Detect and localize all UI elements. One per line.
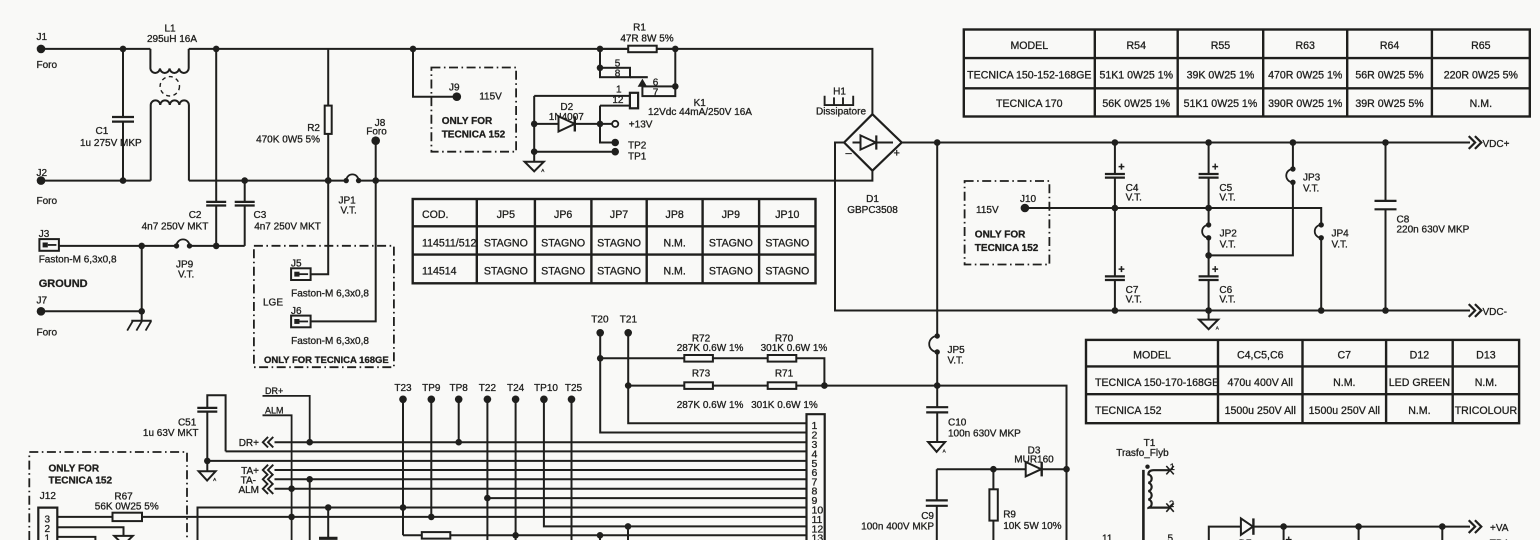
- svg-text:470K 0W5 5%: 470K 0W5 5%: [256, 135, 320, 146]
- test point TP8: [450, 383, 469, 445]
- svg-text:51K1 0W25 1%: 51K1 0W25 1%: [1184, 98, 1258, 110]
- bridge rectifier D1 GBPC3508: [844, 114, 902, 216]
- svg-text:C3: C3: [254, 210, 267, 221]
- test point T20: [591, 314, 806, 432]
- svg-text:STAGNO: STAGNO: [484, 237, 528, 249]
- svg-text:1: 1: [1170, 462, 1175, 473]
- wire J12 pin1 (cut): [57, 537, 95, 540]
- svg-text:470R 0W25 1%: 470R 0W25 1%: [1268, 70, 1343, 82]
- svg-text:+: +: [1286, 535, 1292, 540]
- svg-text:T25: T25: [565, 383, 583, 394]
- svg-text:JP7: JP7: [610, 209, 628, 221]
- svg-text:LGE: LGE: [263, 298, 283, 309]
- wire: VDC+ branch down through JP5: [936, 143, 938, 337]
- svg-text:TECNICA 150-170-168GE: TECNICA 150-170-168GE: [1095, 377, 1219, 389]
- resistor R71 301K 0.6W 1%: [751, 368, 937, 411]
- svg-text:4n7 250V MKT: 4n7 250V MKT: [142, 222, 209, 233]
- svg-text:STAGNO: STAGNO: [765, 266, 809, 278]
- connector J12: [38, 491, 57, 540]
- svg-text:10K 5W 10%: 10K 5W 10%: [1003, 521, 1061, 532]
- svg-text:ALM: ALM: [238, 485, 259, 496]
- wire: +VA rail junction stubs: [1280, 523, 1445, 540]
- svg-text:39K 0W25 1%: 39K 0W25 1%: [1187, 70, 1255, 82]
- transformer T1 Trasfo_Flyb: [1102, 438, 1175, 540]
- svg-text:1: 1: [45, 534, 51, 540]
- svg-text:47R 8W 5%: 47R 8W 5%: [620, 34, 673, 45]
- dashed box J9 ONLY FOR TECNICA 152: [431, 68, 516, 152]
- ground triangle under C6 on VDC- rail: [1199, 311, 1220, 331]
- svg-text:T23: T23: [394, 383, 412, 394]
- svg-text:1: 1: [616, 84, 622, 95]
- net arrow VDC+: [1470, 137, 1510, 150]
- node +13V open terminal: [612, 120, 653, 131]
- svg-text:470u 400V All: 470u 400V All: [1228, 377, 1293, 389]
- capacitor C2 4n7 250V MKT: [142, 46, 227, 250]
- ground triangle under C51: [199, 461, 218, 482]
- svg-text:220R 0W25 5%: 220R 0W25 5%: [1444, 70, 1519, 82]
- test point TP2: [600, 124, 647, 151]
- svg-text:STAGNO: STAGNO: [597, 237, 641, 249]
- svg-text:TP8: TP8: [450, 383, 469, 394]
- resistor R1 47R 8W 5%: [597, 23, 679, 53]
- svg-text:GROUND: GROUND: [39, 278, 88, 290]
- svg-text:390R 0W25 1%: 390R 0W25 1%: [1268, 98, 1343, 110]
- svg-text:287K 0.6W 1%: 287K 0.6W 1%: [677, 343, 744, 354]
- svg-text:C4,C5,C6: C4,C5,C6: [1237, 350, 1284, 362]
- relay K1 contact arm arrow: [639, 80, 647, 87]
- svg-text:1u 275V MKP: 1u 275V MKP: [80, 138, 142, 149]
- svg-text:R63: R63: [1295, 40, 1315, 52]
- capacitor C3 4n7 250V MKT: [235, 177, 321, 246]
- svg-text:+VA: +VA: [1490, 523, 1509, 534]
- connector J2 (Foro): [37, 168, 58, 207]
- svg-text:TP10: TP10: [534, 383, 558, 394]
- svg-text:56K 0W25 5%: 56K 0W25 5%: [95, 501, 159, 512]
- svg-text:ONLY FOR: ONLY FOR: [975, 230, 1026, 241]
- connector J1 (Foro): [37, 32, 58, 71]
- dashed box J10 ONLY FOR TECNICA 152: [965, 181, 1050, 265]
- connector J6 Faston-M 6,3x0,8: [291, 181, 376, 347]
- capacitor C4 V.T.: [1105, 139, 1142, 211]
- svg-text:STAGNO: STAGNO: [597, 266, 641, 278]
- svg-text:V.T.: V.T.: [948, 356, 964, 367]
- svg-text:JP10: JP10: [775, 209, 799, 221]
- svg-text:2: 2: [1169, 499, 1174, 510]
- svg-text:N.M.: N.M.: [663, 237, 685, 249]
- svg-text:220n 630V MKP: 220n 630V MKP: [1397, 225, 1470, 236]
- svg-text:V.T.: V.T.: [1220, 240, 1236, 251]
- relay K1 contact 5-8: [597, 49, 648, 80]
- ground stub below pin10 line: [319, 508, 338, 539]
- svg-text:115V: 115V: [479, 92, 502, 103]
- jumper JP4 V.T.: [1315, 222, 1349, 314]
- svg-text:R9: R9: [1003, 510, 1016, 521]
- dashed box ONLY FOR TECNICA 168GE: [254, 246, 394, 367]
- jumper JP2 V.T.: [1202, 208, 1237, 259]
- svg-text:DR+: DR+: [265, 386, 283, 396]
- svg-text:Foro: Foro: [37, 196, 58, 207]
- svg-text:56K 0W25 1%: 56K 0W25 1%: [1102, 98, 1170, 110]
- wire pin5 from C51 bottom: [207, 460, 806, 462]
- svg-text:+: +: [1212, 264, 1218, 276]
- test point TP10: [534, 383, 806, 526]
- svg-text:Foro: Foro: [37, 328, 58, 339]
- svg-text:TECNICA 170: TECNICA 170: [996, 98, 1063, 110]
- svg-text:1500u 250V All: 1500u 250V All: [1225, 405, 1296, 417]
- svg-text:JP4: JP4: [1332, 229, 1350, 240]
- wire pin9 from T22: [487, 497, 806, 499]
- svg-text:COD.: COD.: [422, 209, 448, 221]
- svg-text:STAGNO: STAGNO: [709, 237, 753, 249]
- svg-text:J7: J7: [37, 296, 48, 307]
- test point T25: [565, 383, 583, 540]
- svg-text:D1: D1: [866, 194, 879, 205]
- test point T22: [479, 383, 497, 540]
- capacitor C7 V.T.: [1105, 208, 1142, 314]
- resistor R73 287K 0.6W 1%: [628, 368, 768, 411]
- svg-text:295uH 16A: 295uH 16A: [147, 34, 197, 45]
- connector JP/flat-cable header pins 1-13: [807, 414, 825, 540]
- svg-text:V.T.: V.T.: [178, 270, 194, 281]
- svg-text:C10: C10: [948, 418, 967, 429]
- connector J10 terminal and wire to C4: [1021, 204, 1115, 213]
- table COD/JP5-JP10: [413, 199, 816, 283]
- test point T23: [394, 383, 412, 535]
- wire: ground line from J3 to C3: [59, 245, 245, 247]
- wire pin4 from C51 top: [226, 450, 807, 452]
- wire pin10 with off-page stub: [198, 504, 807, 540]
- diode D3 MUR160: [937, 445, 1070, 476]
- table MODEL/R54-R65: [964, 30, 1530, 117]
- diode D2 1N4007: [531, 96, 612, 132]
- test point T24: [507, 383, 525, 540]
- resistor R2 470K 0W5 5%: [256, 49, 332, 184]
- svg-text:LED GREEN: LED GREEN: [1389, 377, 1450, 389]
- net arrow DR+ / wire pin3: [239, 438, 807, 450]
- svg-text:R71: R71: [775, 368, 794, 379]
- svg-text:V.T.: V.T.: [341, 206, 357, 217]
- svg-text:J12: J12: [40, 491, 57, 502]
- svg-text:H1: H1: [833, 87, 846, 98]
- svg-text:V.T.: V.T.: [1126, 295, 1142, 306]
- net arrow VDC-: [1470, 305, 1507, 318]
- svg-text:JP2: JP2: [1220, 229, 1238, 240]
- svg-text:T22: T22: [479, 383, 497, 394]
- net arrow TA- / wire pin7: [241, 475, 807, 540]
- wire J12 pin2 to arrow ground (cut): [57, 527, 133, 540]
- svg-text:Foro: Foro: [366, 127, 387, 138]
- svg-text:MUR160: MUR160: [1014, 454, 1054, 465]
- svg-text:MODEL: MODEL: [1133, 350, 1171, 362]
- svg-text:TECNICA 152: TECNICA 152: [975, 243, 1039, 254]
- svg-text:R65: R65: [1471, 40, 1491, 52]
- connector J9 terminal and wire: [410, 46, 461, 101]
- svg-text:ALM: ALM: [265, 405, 284, 415]
- svg-text:+: +: [1118, 162, 1124, 174]
- svg-text:STAGNO: STAGNO: [709, 266, 753, 278]
- svg-text:Dissipatore: Dissipatore: [816, 107, 866, 118]
- svg-text:TP2: TP2: [628, 140, 647, 151]
- svg-text:115V: 115V: [976, 205, 999, 216]
- net arrow +VA: [1470, 521, 1509, 540]
- svg-text:N.M.: N.M.: [663, 266, 685, 278]
- svg-text:ONLY FOR TECNICA 168GE: ONLY FOR TECNICA 168GE: [264, 355, 389, 366]
- svg-text:100n 400V MKP: 100n 400V MKP: [861, 521, 934, 532]
- svg-text:DR+: DR+: [239, 438, 259, 449]
- net arrow TA+ / wire pin6: [241, 465, 806, 477]
- svg-text:JP9: JP9: [722, 209, 740, 221]
- svg-text:V.T.: V.T.: [1126, 192, 1142, 203]
- svg-text:D13: D13: [1476, 350, 1496, 362]
- svg-text:Faston-M 6,3x0,8: Faston-M 6,3x0,8: [291, 336, 369, 347]
- svg-text:TECNICA 152: TECNICA 152: [1095, 405, 1162, 417]
- table MODEL/C4C5C6-D13: [1086, 340, 1519, 423]
- svg-text:V.T.: V.T.: [1303, 184, 1319, 195]
- svg-text:TP1: TP1: [628, 152, 647, 163]
- svg-text:+13V: +13V: [629, 120, 653, 131]
- wire pin13 with series resistor (cut): [403, 532, 807, 540]
- svg-text:GBPC3508: GBPC3508: [847, 205, 898, 216]
- svg-text:301K 0.6W 1%: 301K 0.6W 1%: [751, 400, 818, 411]
- svg-text:L1: L1: [164, 24, 176, 35]
- svg-text:R55: R55: [1211, 40, 1231, 52]
- inductor L1 295uH 16A (common-mode choke): [147, 24, 197, 181]
- svg-text:VDC+: VDC+: [1483, 139, 1510, 150]
- jumper JP3 V.T.: [1286, 139, 1320, 194]
- capacitor C9 100n 400V MKP: [861, 469, 948, 540]
- connector J7 (Foro): [37, 296, 142, 339]
- net label DR+ with stub: [263, 386, 314, 446]
- svg-text:R54: R54: [1127, 40, 1147, 52]
- svg-text:J10: J10: [1020, 194, 1037, 205]
- chassis ground at J7: [127, 243, 152, 331]
- svg-text:J2: J2: [37, 168, 48, 179]
- svg-text:R64: R64: [1380, 40, 1400, 52]
- svg-text:STAGNO: STAGNO: [541, 237, 585, 249]
- wire: JP2 bottom to JP3 bottom: [1209, 182, 1293, 255]
- wire: AC line1 top rail from J1 to bridge: [41, 49, 872, 114]
- svg-text:TECNICA 150-152-168GE: TECNICA 150-152-168GE: [967, 70, 1091, 82]
- net arrow ALM / wire pin8: [238, 484, 806, 496]
- svg-text:12Vdc 44mA/250V 16A: 12Vdc 44mA/250V 16A: [648, 107, 752, 118]
- svg-text:R1: R1: [633, 23, 646, 34]
- svg-text:Trasfo_Flyb: Trasfo_Flyb: [1116, 448, 1169, 459]
- svg-text:T21: T21: [620, 314, 638, 325]
- svg-text:1u 63V MKT: 1u 63V MKT: [143, 428, 199, 439]
- capacitor C6 V.T.: [1199, 255, 1236, 313]
- jumper JP5 V.T.: [929, 333, 965, 389]
- svg-text:56R 0W25 5%: 56R 0W25 5%: [1355, 70, 1424, 82]
- svg-text:MODEL: MODEL: [1010, 40, 1048, 52]
- svg-text:C2: C2: [189, 210, 202, 221]
- svg-text:JP3: JP3: [1303, 173, 1321, 184]
- svg-text:+: +: [894, 148, 900, 160]
- ground triangle at D2/TP1: [525, 162, 544, 172]
- svg-text:100n 630V MKP: 100n 630V MKP: [948, 429, 1021, 440]
- resistor R70 301K 0.6W 1%: [761, 333, 828, 389]
- wire: mid rail C4-C5-JP4: [1115, 208, 1321, 225]
- svg-text:ONLY FOR: ONLY FOR: [442, 116, 493, 127]
- svg-text:VDC-: VDC-: [1483, 307, 1507, 318]
- svg-text:TECNICA 152: TECNICA 152: [442, 130, 506, 141]
- svg-text:C1: C1: [96, 126, 109, 137]
- capacitor C10 100n 630V MKP: [926, 386, 1021, 440]
- ground triangle under C10: [928, 415, 947, 454]
- svg-text:7: 7: [653, 88, 659, 99]
- svg-text:JP6: JP6: [554, 209, 572, 221]
- svg-text:+: +: [1212, 162, 1218, 174]
- jumper JP9 V.T.: [174, 239, 195, 280]
- svg-text:Foro: Foro: [37, 60, 58, 71]
- svg-text:N.M.: N.M.: [1475, 377, 1497, 389]
- capacitor C5 V.T.: [1199, 139, 1236, 211]
- connector J3 Faston-M 6,3x0,8: [39, 229, 117, 266]
- capacitor C1 1u 275V MKP: [80, 46, 142, 184]
- svg-text:J1: J1: [37, 32, 48, 43]
- svg-text:R2: R2: [307, 123, 320, 134]
- svg-text:ONLY FOR: ONLY FOR: [49, 464, 100, 475]
- relay K1 contact 6-7: [642, 49, 678, 99]
- svg-text:TECNICA 152: TECNICA 152: [49, 476, 113, 487]
- test point TP1: [531, 124, 647, 163]
- capacitor C8 220n 630V MKP: [1375, 139, 1470, 314]
- svg-text:8: 8: [615, 68, 621, 79]
- svg-text:+: +: [1118, 264, 1124, 276]
- svg-text:114511/512: 114511/512: [422, 237, 477, 249]
- svg-text:C51: C51: [178, 417, 197, 428]
- svg-text:114514: 114514: [422, 266, 457, 278]
- diode D7 (output rectifier, cut at bottom edge): [1209, 518, 1470, 540]
- wire: AC line2 rail from J2 to bridge: [41, 171, 872, 181]
- svg-text:301K 0.6W 1%: 301K 0.6W 1%: [761, 343, 828, 354]
- svg-text:N.M.: N.M.: [1408, 405, 1430, 417]
- svg-text:J9: J9: [449, 83, 460, 94]
- svg-text:T24: T24: [507, 383, 525, 394]
- svg-text:287K 0.6W 1%: 287K 0.6W 1%: [677, 400, 744, 411]
- resistor R72 287K 0.6W 1%: [600, 333, 768, 361]
- wire pin12 off-page stub: [625, 523, 632, 540]
- svg-text:R73: R73: [692, 368, 711, 379]
- svg-text:51K1 0W25 1%: 51K1 0W25 1%: [1099, 70, 1173, 82]
- svg-text:39R 0W25 5%: 39R 0W25 5%: [1355, 98, 1424, 110]
- wire: R71 line to corner and down past D3: [937, 386, 1066, 540]
- svg-text:D12: D12: [1410, 350, 1430, 362]
- net label ALM with stub: [263, 405, 295, 540]
- resistor R9 10K 5W 10%: [989, 469, 1061, 540]
- svg-text:11: 11: [1102, 534, 1113, 540]
- wire: bridge minus output to VDC- rail: [835, 143, 1470, 311]
- svg-text:Faston-M 6,3x0,8: Faston-M 6,3x0,8: [291, 289, 369, 300]
- connector J8 (Foro): [366, 118, 387, 181]
- svg-text:4n7 250V MKT: 4n7 250V MKT: [254, 222, 321, 233]
- svg-text:T20: T20: [591, 314, 609, 325]
- svg-text:C7: C7: [1338, 350, 1352, 362]
- svg-text:JP5: JP5: [497, 209, 515, 221]
- relay K1 coil 12Vdc 44mA/250V 16A: [534, 84, 752, 124]
- connector J5 Faston-M 6,3x0,8: [291, 177, 369, 299]
- svg-text:V.T.: V.T.: [1219, 192, 1235, 203]
- capacitor C51 1u 63V MKT: [143, 395, 226, 464]
- test point T21: [620, 314, 807, 423]
- svg-text:13: 13: [812, 532, 824, 540]
- svg-text:N.M.: N.M.: [1470, 98, 1492, 110]
- dashed box ONLY FOR TECNICA 152 (J12): [29, 452, 187, 540]
- resistor R67 56K 0W25 5% / wire pin11: [57, 491, 806, 521]
- svg-text:1500u 250V All: 1500u 250V All: [1309, 405, 1380, 417]
- svg-text:STAGNO: STAGNO: [765, 237, 809, 249]
- wire: bridge plus output / VDC+ rail: [902, 139, 1470, 146]
- svg-text:–: –: [846, 148, 853, 160]
- svg-text:V.T.: V.T.: [1219, 295, 1235, 306]
- svg-text:V.T.: V.T.: [1332, 240, 1348, 251]
- svg-text:STAGNO: STAGNO: [541, 266, 585, 278]
- svg-text:12: 12: [612, 95, 624, 106]
- svg-text:N.M.: N.M.: [1333, 377, 1355, 389]
- svg-text:TP9: TP9: [422, 383, 441, 394]
- svg-text:JP8: JP8: [666, 209, 684, 221]
- svg-text:JP5: JP5: [948, 345, 966, 356]
- jumper JP1 V.T.: [339, 174, 380, 216]
- test point TP9: [422, 383, 441, 520]
- heatsink H1 Dissipatore: [816, 87, 866, 118]
- svg-text:Faston-M 6,3x0,8: Faston-M 6,3x0,8: [39, 255, 117, 266]
- svg-text:STAGNO: STAGNO: [484, 266, 528, 278]
- svg-text:TRICOLOUR: TRICOLOUR: [1455, 405, 1518, 417]
- svg-text:5: 5: [1168, 534, 1174, 540]
